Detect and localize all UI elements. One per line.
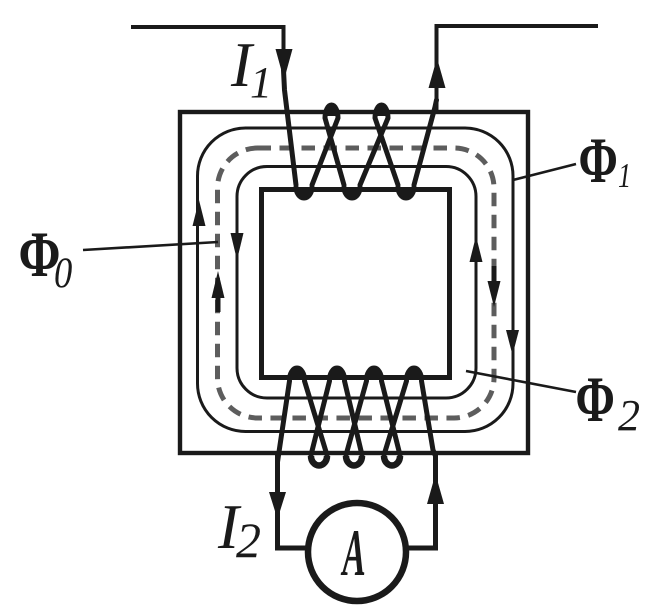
svg-text:1: 1	[250, 58, 272, 107]
svg-text:Φ: Φ	[576, 364, 615, 436]
svg-text:2: 2	[618, 391, 640, 440]
svg-text:A: A	[341, 515, 366, 590]
svg-text:Φ: Φ	[579, 125, 618, 197]
svg-text:2: 2	[236, 512, 261, 568]
svg-text:1: 1	[618, 155, 631, 195]
svg-text:0: 0	[54, 248, 72, 296]
